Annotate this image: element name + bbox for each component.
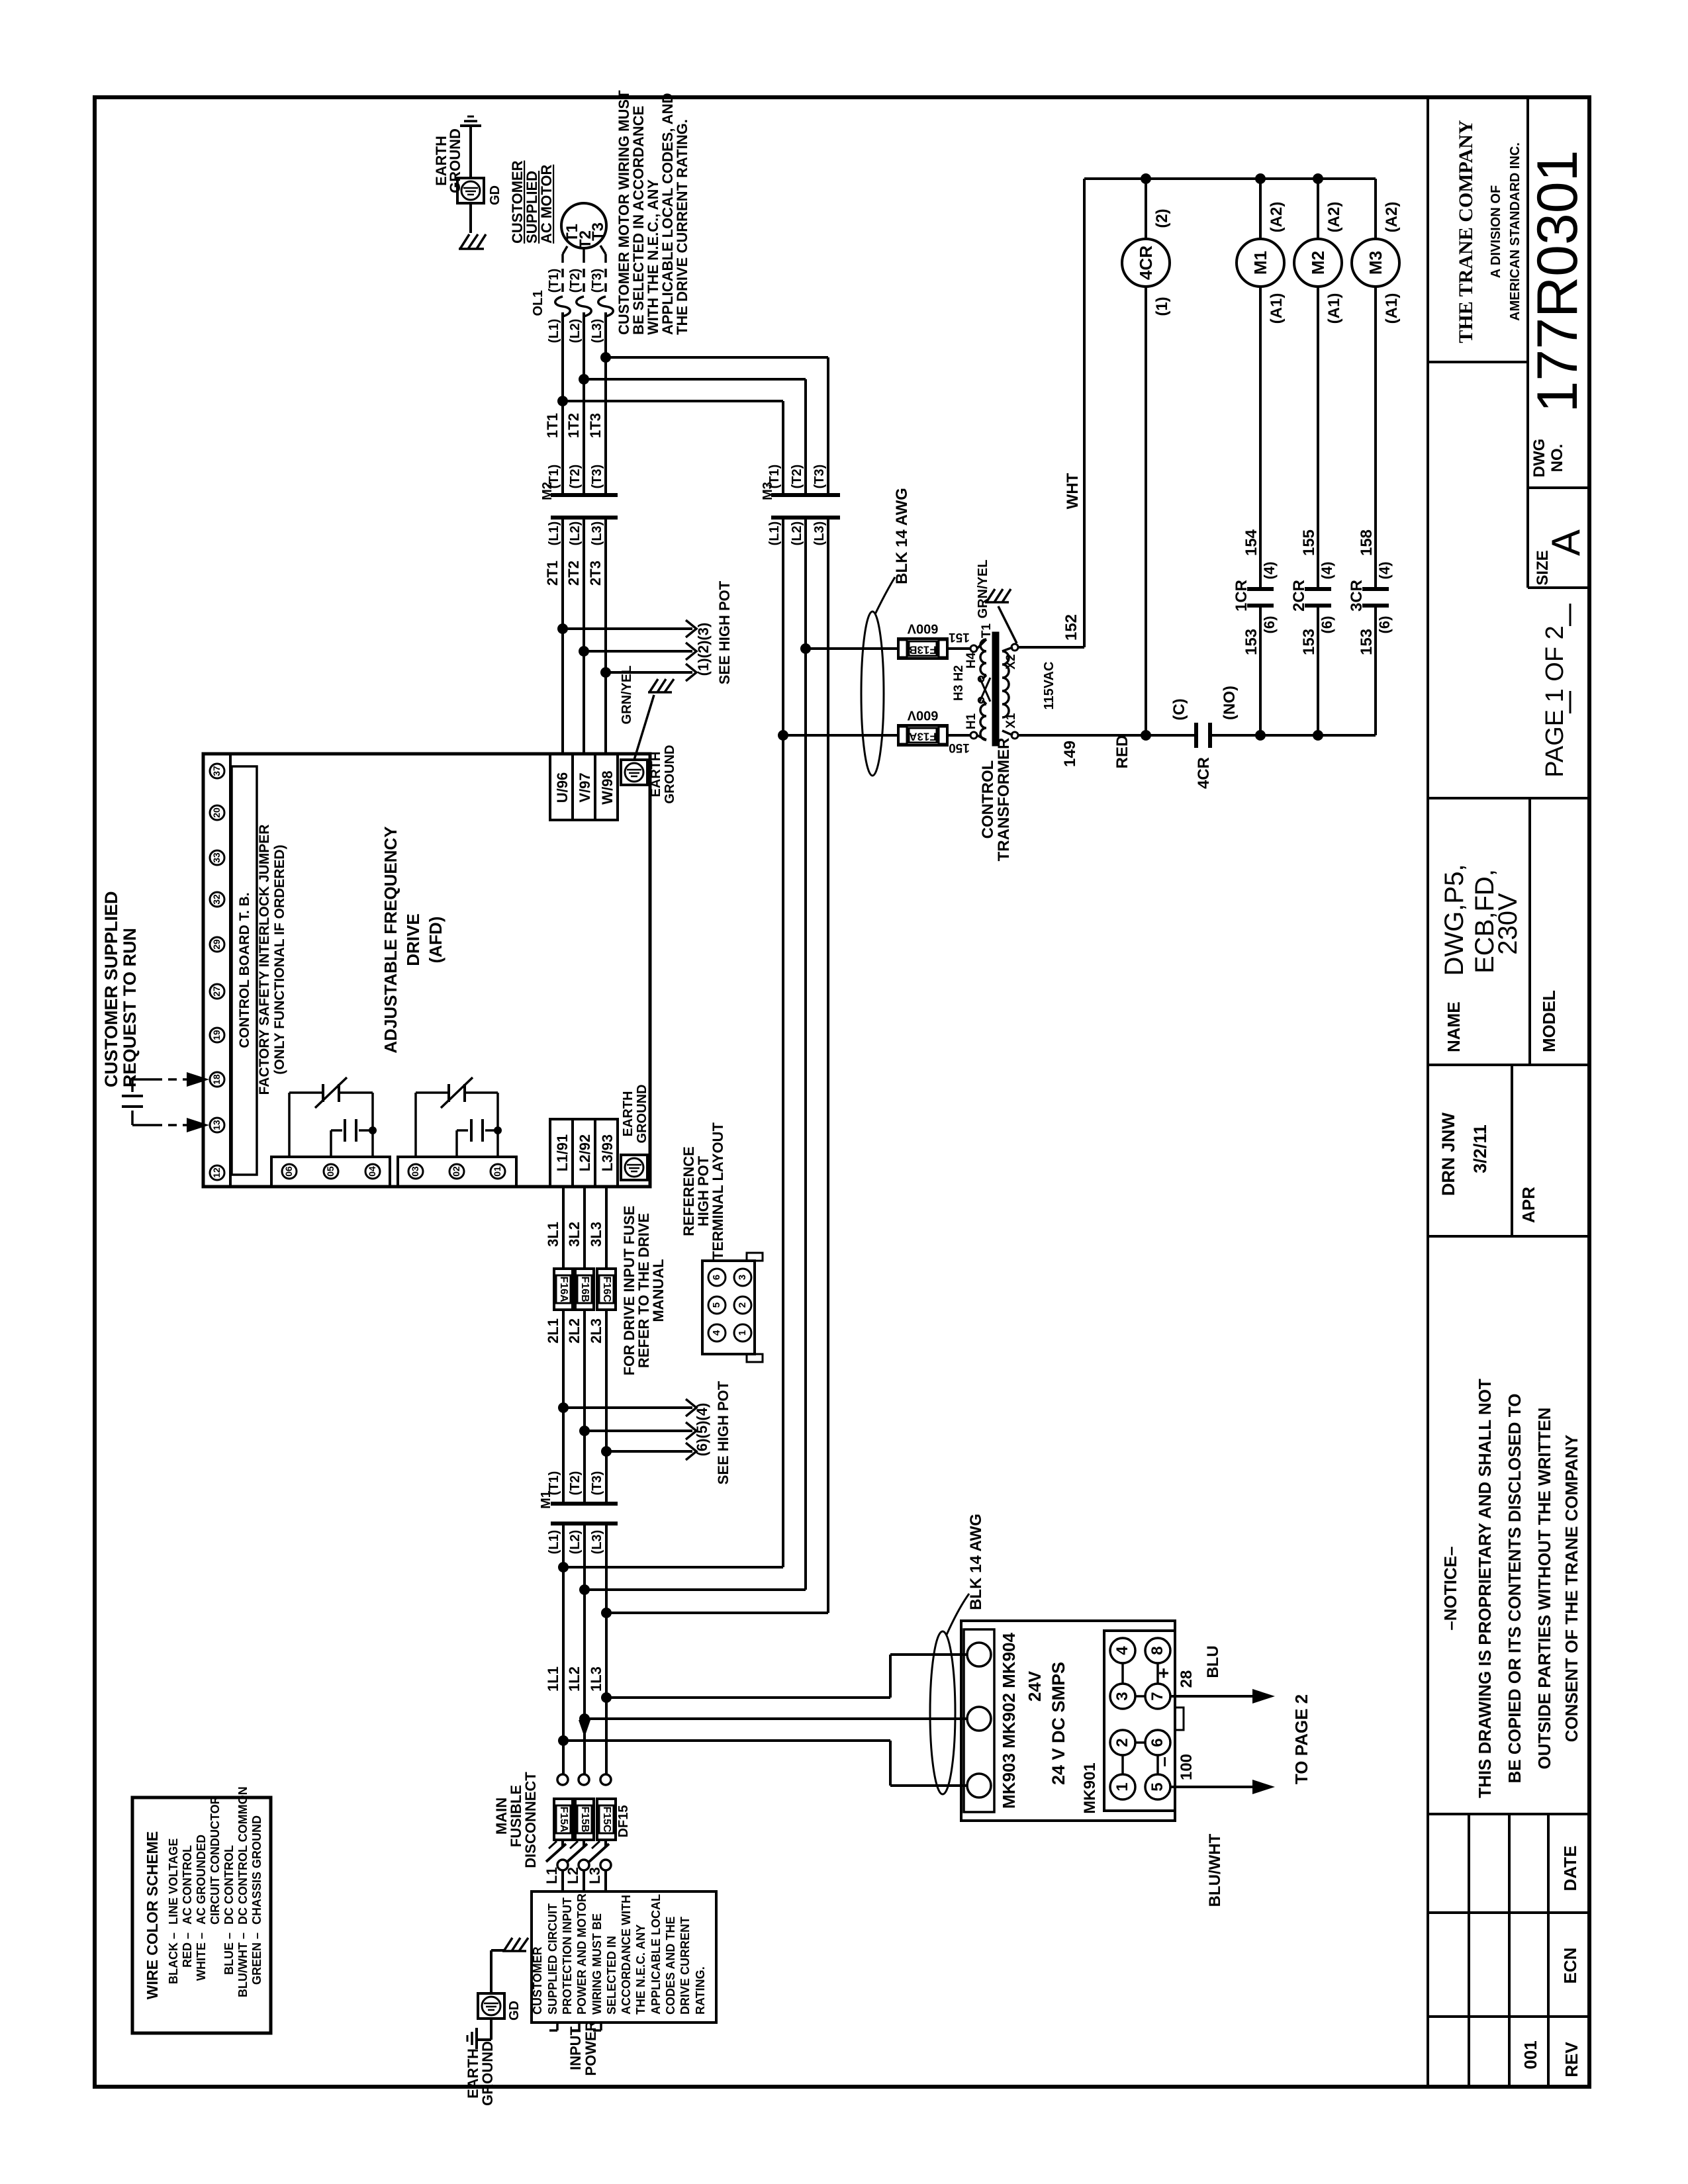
svg-text:(L2): (L2) xyxy=(568,319,583,343)
svg-text:(L2): (L2) xyxy=(790,522,804,546)
svg-text:BLUE –: BLUE – xyxy=(222,1933,236,1975)
wire: tap T1 to M3 riser xyxy=(606,356,828,359)
node: bus taps xyxy=(1141,173,1151,184)
node: F13A tap xyxy=(778,730,788,741)
svg-text:INPUT: INPUT xyxy=(567,2026,584,2070)
node: taps to M3 riser returns xyxy=(558,1562,569,1572)
svg-text:SEE HIGH POT: SEE HIGH POT xyxy=(716,580,733,684)
AFD internal NC contact 1 xyxy=(288,1093,291,1157)
wire: high pot tap 2 xyxy=(584,650,692,653)
svg-text:POWER AND MOTOR: POWER AND MOTOR xyxy=(575,1893,588,2015)
svg-text:4CR: 4CR xyxy=(1195,757,1213,789)
svg-text:T1: T1 xyxy=(980,623,994,638)
fuse F16B xyxy=(575,1269,594,1310)
svg-text:LINE VOLTAGE: LINE VOLTAGE xyxy=(167,1839,180,1925)
contactor M1 contacts xyxy=(551,1502,575,1506)
wire: M2 coil drop xyxy=(1317,179,1319,239)
input power ticks xyxy=(556,2023,559,2030)
svg-text:1L1: 1L1 xyxy=(545,1666,561,1692)
wire: SMPS feed 3 xyxy=(563,1739,890,1742)
svg-text:X2: X2 xyxy=(1004,654,1018,669)
fuse F15A xyxy=(554,1799,573,1840)
svg-text:2CR: 2CR xyxy=(1290,580,1308,612)
wire: top control bus xyxy=(1084,177,1376,180)
svg-text:153: 153 xyxy=(1243,629,1260,655)
fuse F13A 600V xyxy=(898,725,947,745)
node: taps to M3 column xyxy=(600,352,611,363)
wire: motor column verticals lower xyxy=(561,518,564,754)
svg-text:–: – xyxy=(1153,1756,1174,1767)
wire: below fuses xyxy=(562,1310,565,1504)
svg-text:2T3: 2T3 xyxy=(587,561,604,586)
svg-text:EARTH: EARTH xyxy=(621,1091,635,1137)
svg-text:DC CONTROL COMMON: DC CONTROL COMMON xyxy=(236,1786,250,1925)
fuse F16C xyxy=(597,1269,616,1310)
svg-text:100: 100 xyxy=(1178,1754,1196,1780)
transformer crossover wires H2 H3 xyxy=(980,678,990,702)
relay coil M2 xyxy=(1294,239,1342,287)
GRN/YEL chassis ground at transformer xyxy=(998,606,1017,643)
disconnect terminals xyxy=(557,1774,568,1785)
node: F13B tap xyxy=(800,643,811,654)
svg-text:(6): (6) xyxy=(1376,616,1393,634)
notice block xyxy=(1428,1235,1589,1238)
svg-text:F16B: F16B xyxy=(579,1276,590,1302)
svg-text:RED: RED xyxy=(1113,735,1131,769)
wire: high pot tap 3 xyxy=(606,671,692,674)
svg-text:3/2/11: 3/2/11 xyxy=(1470,1124,1490,1173)
svg-text:DISCONNECT: DISCONNECT xyxy=(522,1772,539,1868)
svg-text:20: 20 xyxy=(211,807,222,818)
svg-text:AC MOTOR: AC MOTOR xyxy=(538,165,555,244)
wire: M3 coil drop xyxy=(1374,179,1377,239)
svg-text:THE N.E.C. ANY: THE N.E.C. ANY xyxy=(634,1925,647,2015)
svg-text:BLK 14 AWG: BLK 14 AWG xyxy=(967,1514,985,1610)
svg-text:600V: 600V xyxy=(907,708,938,723)
24V DC SMPS box xyxy=(961,1621,1175,1821)
svg-text:–NOTICE–: –NOTICE– xyxy=(1440,1546,1460,1630)
svg-text:GD: GD xyxy=(507,2001,522,2021)
cable loop BLK 14 AWG (lower) xyxy=(930,1631,955,1794)
svg-text:GD: GD xyxy=(488,185,502,205)
node: taps to high pot (6)(5)(4) xyxy=(558,1402,569,1413)
svg-text:(L1): (L1) xyxy=(547,319,561,343)
svg-text:(A1): (A1) xyxy=(1325,293,1343,324)
svg-text:(T2): (T2) xyxy=(790,465,804,489)
svg-text:APR: APR xyxy=(1519,1187,1538,1223)
svg-text:GROUND: GROUND xyxy=(635,1085,649,1144)
svg-text:(A2): (A2) xyxy=(1325,202,1343,233)
svg-text:149: 149 xyxy=(1061,741,1079,767)
svg-text:L3: L3 xyxy=(586,1867,603,1884)
wire: F13A to transformer xyxy=(947,734,970,737)
wire: X1 to control bus 149 RED xyxy=(1018,734,1196,737)
svg-text:WIRING MUST BE: WIRING MUST BE xyxy=(590,1913,604,2015)
svg-text:8: 8 xyxy=(1149,1646,1166,1655)
AFD internal NO contact 2 xyxy=(496,1093,499,1157)
svg-text:BLACK –: BLACK – xyxy=(167,1933,180,1984)
svg-text:CONTROL: CONTROL xyxy=(979,760,997,839)
svg-text:2T1: 2T1 xyxy=(544,561,561,586)
svg-text:THE TRANE COMPANY: THE TRANE COMPANY xyxy=(1455,120,1477,343)
svg-text:6: 6 xyxy=(1149,1738,1166,1747)
svg-text:3: 3 xyxy=(737,1275,748,1280)
wire: motor leads dashed xyxy=(563,246,567,254)
svg-text:(T3): (T3) xyxy=(590,1471,604,1496)
svg-text:OUTSIDE PARTIES WITHOUT THE WR: OUTSIDE PARTIES WITHOUT THE WRITTEN xyxy=(1534,1408,1554,1770)
svg-text:M3: M3 xyxy=(1366,251,1385,275)
svg-text:06: 06 xyxy=(283,1166,294,1177)
svg-text:04: 04 xyxy=(367,1166,377,1177)
svg-text:NO.: NO. xyxy=(1548,444,1566,473)
contact 3CR xyxy=(1362,587,1389,591)
svg-text:3L2: 3L2 xyxy=(566,1222,583,1247)
cable loop BLK 14 AWG (upper) xyxy=(861,612,884,776)
svg-text:TRANSFORMER: TRANSFORMER xyxy=(995,738,1013,862)
SMPS terminal strip xyxy=(964,1629,994,1812)
wire: 4CR coil drop xyxy=(1145,179,1147,239)
svg-text:SELECTED IN: SELECTED IN xyxy=(605,1936,618,2015)
svg-text:TERMINAL LAYOUT: TERMINAL LAYOUT xyxy=(710,1122,726,1260)
svg-text:3CR: 3CR xyxy=(1348,580,1366,612)
connector MK901 xyxy=(1104,1631,1175,1811)
AFD relay terminals 03 02 01 xyxy=(398,1157,516,1187)
transformer core xyxy=(993,633,998,745)
svg-text:(4): (4) xyxy=(1319,562,1335,580)
svg-text:(T3): (T3) xyxy=(812,465,827,489)
svg-text:MANUAL: MANUAL xyxy=(650,1259,667,1322)
svg-text:(ONLY FUNCTIONAL IF ORDERED): (ONLY FUNCTIONAL IF ORDERED) xyxy=(272,844,287,1074)
svg-text:(T1): (T1) xyxy=(547,465,561,489)
svg-text:3: 3 xyxy=(1113,1692,1131,1700)
svg-text:THIS DRAWING IS PROPRIETARY AN: THIS DRAWING IS PROPRIETARY AND SHALL NO… xyxy=(1475,1379,1495,1798)
svg-text:RATING.: RATING. xyxy=(694,1966,707,2015)
contactor M3 contacts xyxy=(771,493,795,497)
wire: motor column verticals upper xyxy=(561,312,564,495)
svg-text:APPLICABLE LOCAL: APPLICABLE LOCAL xyxy=(649,1894,663,2015)
wire: bottom control bus xyxy=(1210,734,1376,737)
svg-text:(T3): (T3) xyxy=(590,465,604,489)
svg-text:05: 05 xyxy=(325,1166,336,1177)
svg-text:(L3): (L3) xyxy=(590,319,604,343)
control transformer T1 xyxy=(977,639,986,649)
svg-text:BE COPIED OR ITS CONTENTS DISC: BE COPIED OR ITS CONTENTS DISCLOSED TO xyxy=(1505,1394,1524,1784)
request-to-run switch xyxy=(132,1078,154,1081)
svg-text:(1): (1) xyxy=(1153,296,1171,316)
svg-text:19: 19 xyxy=(211,1030,222,1040)
svg-text:DATE: DATE xyxy=(1560,1846,1580,1891)
svg-text:(1)(2)(3): (1)(2)(3) xyxy=(695,623,712,676)
svg-text:1L2: 1L2 xyxy=(566,1666,583,1692)
svg-text:L2/92: L2/92 xyxy=(577,1134,593,1171)
svg-text:GROUND: GROUND xyxy=(479,2041,496,2106)
svg-text:2T2: 2T2 xyxy=(565,561,582,586)
wire: high pot tap 5 xyxy=(585,1430,692,1432)
overload OL1 heaters xyxy=(555,296,571,316)
wire: X2 to node 152 xyxy=(1018,646,1084,649)
svg-text:PAGE 1 OF 2: PAGE 1 OF 2 xyxy=(1541,625,1569,777)
svg-text:TO PAGE 2: TO PAGE 2 xyxy=(1291,1694,1311,1784)
svg-text:4CR: 4CR xyxy=(1136,246,1156,280)
svg-text:ACCORDANCE WITH: ACCORDANCE WITH xyxy=(620,1895,633,2015)
svg-text:(A1): (A1) xyxy=(1268,293,1286,324)
svg-text:115VAC: 115VAC xyxy=(1042,661,1056,709)
svg-text:24 V DC SMPS: 24 V DC SMPS xyxy=(1049,1662,1068,1785)
svg-text:CONTROL BOARD T. B.: CONTROL BOARD T. B. xyxy=(237,892,252,1048)
svg-text:DWG: DWG xyxy=(1530,439,1548,478)
wire: high pot tap 4 xyxy=(606,1450,692,1453)
svg-text:SUPPLIED CIRCUIT: SUPPLIED CIRCUIT xyxy=(546,1903,559,2015)
earth ground terminal (AFD top) xyxy=(621,760,647,785)
customer supplied circuit note box xyxy=(532,1891,716,2023)
svg-text:3L3: 3L3 xyxy=(588,1222,604,1247)
svg-text:GREEN –: GREEN – xyxy=(250,1933,263,1985)
svg-text:L2: L2 xyxy=(565,1867,581,1884)
relay coil M3 xyxy=(1352,239,1399,287)
svg-text:(T1): (T1) xyxy=(547,269,561,293)
control board terminal strip xyxy=(229,754,232,1187)
svg-text:2: 2 xyxy=(737,1302,748,1308)
wire: tap T3 to M3 riser xyxy=(563,400,783,402)
svg-text:F16C: F16C xyxy=(601,1276,612,1302)
wire: high pot tap 6 xyxy=(563,1406,692,1409)
svg-text:(6): (6) xyxy=(1319,616,1335,634)
svg-text:2L1: 2L1 xyxy=(545,1318,561,1343)
svg-text:37: 37 xyxy=(211,766,222,776)
svg-text:THE DRIVE CURRENT RATING.: THE DRIVE CURRENT RATING. xyxy=(674,119,690,335)
earth ground (bottom left of customer box) xyxy=(490,1950,492,1993)
svg-text:13: 13 xyxy=(211,1120,222,1130)
svg-text:(L3): (L3) xyxy=(590,1530,604,1555)
svg-text:(L1): (L1) xyxy=(547,1530,561,1555)
svg-text:29: 29 xyxy=(211,939,222,950)
earth ground terminal (AFD bottom) xyxy=(621,1155,647,1180)
wire: SMPS -100 BLU/WHT to page 2 xyxy=(1170,1786,1254,1788)
svg-text:REQUEST TO RUN: REQUEST TO RUN xyxy=(120,928,140,1087)
motor M (T1 T2 T3) xyxy=(561,203,606,248)
wire: tap T2 to M3 riser xyxy=(584,378,806,381)
high pot connector layout xyxy=(702,1261,755,1354)
svg-text:(A2): (A2) xyxy=(1268,202,1286,233)
svg-text:T3: T3 xyxy=(589,222,607,241)
svg-text:WHT: WHT xyxy=(1064,473,1082,509)
svg-text:AMERICAN STANDARD INC.: AMERICAN STANDARD INC. xyxy=(1508,142,1523,321)
AFD terminal box L1/91 L2/92 L3/93 xyxy=(550,1119,618,1187)
svg-text:33: 33 xyxy=(211,852,222,863)
svg-text:BLU: BLU xyxy=(1204,1645,1222,1678)
svg-text:158: 158 xyxy=(1358,529,1376,556)
contact 4CR (C)(NO) xyxy=(1194,723,1198,748)
arrow on L2 wire xyxy=(579,1720,590,1737)
wire: SMPS feed 1 xyxy=(606,1696,890,1699)
svg-text:4: 4 xyxy=(711,1330,722,1336)
contactor M2 contacts xyxy=(551,493,575,497)
svg-text:(T2): (T2) xyxy=(568,465,583,489)
AFD internal NO contact 1 xyxy=(371,1093,374,1157)
svg-text:OL1: OL1 xyxy=(531,291,545,316)
fuse F15B xyxy=(575,1799,594,1840)
svg-text:154: 154 xyxy=(1243,529,1260,556)
node: taps to high pot (1)(2)(3) xyxy=(557,623,568,634)
svg-text:WIRE COLOR SCHEME: WIRE COLOR SCHEME xyxy=(144,1831,161,1999)
AFD internal NC contact 2 xyxy=(414,1093,417,1157)
svg-text:A DIVISION OF: A DIVISION OF xyxy=(1489,185,1503,278)
svg-text:(6): (6) xyxy=(1261,616,1278,634)
svg-text:1T1: 1T1 xyxy=(544,413,561,438)
svg-text:GRN/YEL: GRN/YEL xyxy=(620,666,634,725)
svg-text:A: A xyxy=(1544,529,1588,556)
svg-text:X1: X1 xyxy=(1004,713,1018,729)
control board terminals xyxy=(210,764,224,778)
svg-text:2L2: 2L2 xyxy=(566,1318,583,1343)
svg-text:U/96: U/96 xyxy=(554,772,571,803)
svg-text:(A2): (A2) xyxy=(1383,202,1401,233)
svg-text:02: 02 xyxy=(451,1166,461,1177)
svg-text:153: 153 xyxy=(1300,629,1318,655)
svg-text:GROUND: GROUND xyxy=(663,745,677,804)
svg-text:CHASSIS GROUND: CHASSIS GROUND xyxy=(250,1815,263,1925)
svg-text:DWG,P5,: DWG,P5, xyxy=(1440,864,1469,976)
svg-text:2: 2 xyxy=(1113,1738,1131,1747)
svg-text:5: 5 xyxy=(1149,1782,1166,1791)
svg-text:7: 7 xyxy=(1149,1692,1166,1700)
wire: return to riser 2 xyxy=(585,1588,806,1591)
primary winding lower half (H3-H1) xyxy=(982,700,986,704)
svg-text:(T2): (T2) xyxy=(568,1471,583,1496)
svg-text:150: 150 xyxy=(949,741,970,754)
fuse F16A xyxy=(554,1269,573,1310)
svg-text:1T3: 1T3 xyxy=(587,413,604,438)
svg-text:(NO): (NO) xyxy=(1221,686,1239,720)
svg-text:600V: 600V xyxy=(907,621,938,636)
svg-text:L3/93: L3/93 xyxy=(599,1134,616,1171)
svg-text:PROTECTION INPUT: PROTECTION INPUT xyxy=(561,1897,574,2015)
fuse F13B 600V xyxy=(898,639,947,659)
svg-text:(6)(5)(4): (6)(5)(4) xyxy=(694,1403,710,1457)
svg-text:(L3): (L3) xyxy=(590,522,604,546)
fuse F15C xyxy=(597,1799,616,1840)
wire: 152 riser (WHT) xyxy=(1083,179,1086,647)
svg-text:152: 152 xyxy=(1062,614,1080,641)
dashed lead to terminal 18 xyxy=(154,1078,189,1081)
svg-text:DRIVE CURRENT: DRIVE CURRENT xyxy=(679,1917,692,2015)
svg-text:F15A: F15A xyxy=(558,1806,569,1833)
svg-text:24V: 24V xyxy=(1025,1670,1045,1702)
svg-text:DF15: DF15 xyxy=(616,1805,631,1838)
svg-text:(T1): (T1) xyxy=(547,1471,561,1496)
relay coil M1 xyxy=(1237,239,1284,287)
svg-text:177R0301: 177R0301 xyxy=(1526,150,1589,413)
svg-text:GROUND: GROUND xyxy=(447,128,463,193)
svg-text:001: 001 xyxy=(1521,2040,1540,2069)
svg-text:DRN JNW: DRN JNW xyxy=(1438,1112,1458,1196)
svg-text:(L3): (L3) xyxy=(812,522,827,546)
svg-text:H3 H2: H3 H2 xyxy=(952,665,966,701)
svg-text:1: 1 xyxy=(737,1330,748,1336)
svg-text:F15B: F15B xyxy=(579,1806,590,1832)
svg-text:+: + xyxy=(1153,1668,1174,1678)
svg-text:CUSTOMER: CUSTOMER xyxy=(531,1946,544,2015)
svg-text:6: 6 xyxy=(711,1275,722,1280)
svg-text:1: 1 xyxy=(1113,1782,1131,1791)
factory safety interlock jumper bar xyxy=(232,766,257,1175)
svg-text:L1/91: L1/91 xyxy=(554,1134,571,1171)
svg-text:3L1: 3L1 xyxy=(545,1222,561,1247)
svg-text:WHITE –: WHITE – xyxy=(195,1933,208,1981)
transformer secondary winding xyxy=(1002,651,1009,717)
svg-text:M2: M2 xyxy=(1308,251,1328,275)
svg-text:1CR: 1CR xyxy=(1233,580,1250,612)
svg-text:01: 01 xyxy=(492,1166,502,1177)
svg-text:32: 32 xyxy=(211,894,222,905)
svg-text:(T1): (T1) xyxy=(767,465,782,489)
svg-text:BLU/WHT –: BLU/WHT – xyxy=(236,1933,250,1997)
wire: drive input leads xyxy=(562,1187,565,1269)
svg-text:POWER: POWER xyxy=(583,2021,599,2075)
svg-text:DRIVE: DRIVE xyxy=(403,913,423,966)
svg-text:(L2): (L2) xyxy=(568,1530,583,1555)
svg-text:(L1): (L1) xyxy=(767,522,782,546)
svg-text:DC CONTROL: DC CONTROL xyxy=(222,1845,236,1925)
title block: company cell xyxy=(1428,361,1528,363)
svg-text:(A1): (A1) xyxy=(1383,293,1401,324)
svg-text:EARTH: EARTH xyxy=(649,752,663,797)
svg-text:V/97: V/97 xyxy=(577,772,593,802)
wire: to fuse F13A xyxy=(783,734,899,737)
wire: M1 coil drop xyxy=(1259,179,1262,239)
contact 1CR xyxy=(1247,587,1274,591)
node: taps to SMPS xyxy=(601,1692,612,1703)
svg-text:(C): (C) xyxy=(1170,698,1188,720)
svg-text:ADJUSTABLE FREQUENCY: ADJUSTABLE FREQUENCY xyxy=(381,826,400,1053)
contact 2CR xyxy=(1305,587,1331,591)
svg-text:151: 151 xyxy=(949,630,970,644)
wire: F13B to transformer xyxy=(947,647,970,650)
wire: M3 riser verticals upper xyxy=(827,357,829,495)
svg-text:18: 18 xyxy=(211,1074,222,1085)
svg-text:1L3: 1L3 xyxy=(588,1666,604,1692)
svg-text:H1: H1 xyxy=(964,713,978,729)
AFD terminal box U/96 V/97 W/98 xyxy=(550,754,618,820)
svg-text:1T2: 1T2 xyxy=(565,413,582,438)
svg-text:H4: H4 xyxy=(964,652,978,668)
wire: high pot tap 1 xyxy=(563,627,692,630)
title block divider xyxy=(1427,97,1429,2087)
svg-text:(L2): (L2) xyxy=(568,522,583,546)
name/model block xyxy=(1428,797,1589,799)
svg-text:BLK 14 AWG: BLK 14 AWG xyxy=(893,488,911,584)
svg-text:W/98: W/98 xyxy=(599,770,616,804)
wire: M3 riser verticals lower xyxy=(827,518,829,1613)
svg-text:MK901: MK901 xyxy=(1081,1762,1099,1813)
svg-text:SEE HIGH POT: SEE HIGH POT xyxy=(715,1381,731,1484)
svg-text:NAME: NAME xyxy=(1444,1001,1464,1052)
svg-text:RED –: RED – xyxy=(181,1933,194,1968)
svg-text:CONSENT OF THE TRANE COMPANY: CONSENT OF THE TRANE COMPANY xyxy=(1562,1435,1581,1743)
node: bottom bus taps xyxy=(1141,730,1151,741)
svg-text:2L3: 2L3 xyxy=(588,1318,604,1343)
svg-text:153: 153 xyxy=(1358,629,1376,655)
wire color scheme box xyxy=(132,1797,271,2033)
AFD relay terminals 06 05 04 xyxy=(271,1157,390,1187)
svg-text:AC GROUNDED: AC GROUNDED xyxy=(195,1835,208,1925)
disconnect blades xyxy=(561,1840,564,1846)
svg-text:(AFD): (AFD) xyxy=(426,917,445,964)
revision table xyxy=(1428,1813,1589,1815)
svg-text:F13A: F13A xyxy=(909,731,937,743)
wire: SMPS feed 2 xyxy=(585,1717,967,1720)
svg-text:F13B: F13B xyxy=(909,644,937,657)
